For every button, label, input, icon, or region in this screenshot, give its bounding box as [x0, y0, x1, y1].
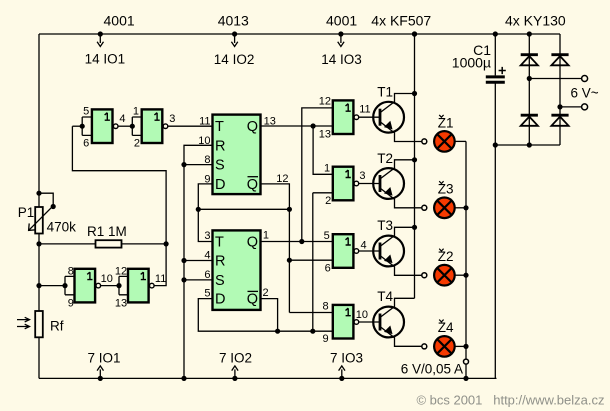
svg-text:T4: T4 [377, 289, 393, 304]
svg-text:1: 1 [133, 106, 139, 118]
svg-text:4x KY130: 4x KY130 [505, 12, 566, 28]
svg-text:13: 13 [319, 128, 331, 140]
svg-text:6: 6 [325, 263, 331, 275]
svg-text:9: 9 [322, 333, 328, 345]
svg-text:8: 8 [322, 301, 328, 313]
svg-text:R: R [215, 138, 225, 154]
svg-text:D: D [215, 292, 225, 308]
svg-text:14 IO1: 14 IO1 [85, 51, 126, 66]
svg-text:S: S [215, 158, 225, 174]
svg-text:2: 2 [134, 137, 140, 149]
svg-text:T3: T3 [377, 218, 393, 233]
svg-text:T: T [215, 235, 224, 251]
svg-text:3: 3 [204, 230, 210, 242]
svg-text:Q: Q [247, 292, 258, 308]
svg-text:5: 5 [324, 230, 330, 242]
svg-text:6: 6 [83, 137, 89, 149]
svg-text:6 V~: 6 V~ [571, 86, 599, 101]
svg-text:4: 4 [361, 240, 367, 252]
svg-text:R: R [215, 254, 225, 270]
svg-text:P1: P1 [18, 205, 35, 220]
svg-text:4001: 4001 [104, 12, 135, 28]
svg-text:11: 11 [359, 104, 370, 116]
svg-text:12: 12 [319, 96, 331, 108]
svg-text:4x KF507: 4x KF507 [371, 12, 431, 28]
svg-text:4: 4 [204, 250, 210, 262]
svg-text:11: 11 [199, 115, 210, 127]
svg-text:T: T [215, 119, 224, 135]
svg-text:5: 5 [204, 288, 210, 300]
svg-text:S: S [215, 273, 225, 289]
svg-text:14 IO2: 14 IO2 [214, 52, 255, 67]
svg-text:Q: Q [247, 177, 258, 193]
svg-text:© bcs 2001 http://www.belza.: © bcs 2001 http://www.belza.cz [416, 393, 604, 408]
svg-text:3: 3 [169, 113, 175, 125]
svg-text:470k: 470k [47, 220, 77, 235]
svg-text:3: 3 [359, 170, 365, 182]
svg-text:T1: T1 [377, 85, 393, 100]
svg-text:2: 2 [325, 195, 331, 207]
svg-text:12: 12 [276, 173, 288, 185]
svg-text:1000µ: 1000µ [452, 54, 491, 70]
svg-text:10: 10 [101, 273, 113, 285]
svg-text:1: 1 [263, 230, 269, 242]
svg-text:Z1: Z1 [438, 115, 454, 130]
svg-text:T2: T2 [377, 151, 393, 166]
svg-text:Z3: Z3 [438, 182, 454, 197]
svg-text:13: 13 [115, 298, 127, 310]
svg-text:Q: Q [247, 235, 258, 251]
svg-text:4001: 4001 [326, 12, 357, 28]
svg-text:13: 13 [264, 115, 276, 127]
svg-text:12: 12 [115, 266, 127, 278]
svg-text:8: 8 [68, 266, 74, 278]
svg-text:7 IO2: 7 IO2 [219, 351, 252, 366]
svg-text:5: 5 [83, 106, 89, 118]
svg-text:7 IO3: 7 IO3 [330, 351, 363, 366]
svg-text:10: 10 [198, 135, 210, 147]
svg-text:1: 1 [324, 162, 330, 174]
svg-text:D: D [215, 177, 225, 193]
svg-text:6: 6 [204, 269, 210, 281]
svg-text:10: 10 [356, 309, 368, 321]
svg-text:2: 2 [262, 287, 268, 299]
svg-text:Z2: Z2 [438, 249, 454, 264]
svg-text:11: 11 [155, 273, 166, 285]
svg-text:Q: Q [247, 119, 258, 135]
svg-text:9: 9 [204, 174, 210, 186]
svg-text:8: 8 [204, 154, 210, 166]
svg-text:6 V/0,05 A: 6 V/0,05 A [401, 362, 463, 377]
svg-text:4013: 4013 [218, 12, 249, 28]
svg-text:14 IO3: 14 IO3 [321, 52, 362, 67]
svg-text:9: 9 [68, 297, 74, 309]
svg-text:7 IO1: 7 IO1 [88, 351, 121, 366]
svg-text:Rf: Rf [50, 318, 64, 333]
svg-text:4: 4 [119, 113, 125, 125]
svg-text:Z4: Z4 [438, 320, 454, 335]
svg-text:R1 1M: R1 1M [87, 224, 127, 239]
